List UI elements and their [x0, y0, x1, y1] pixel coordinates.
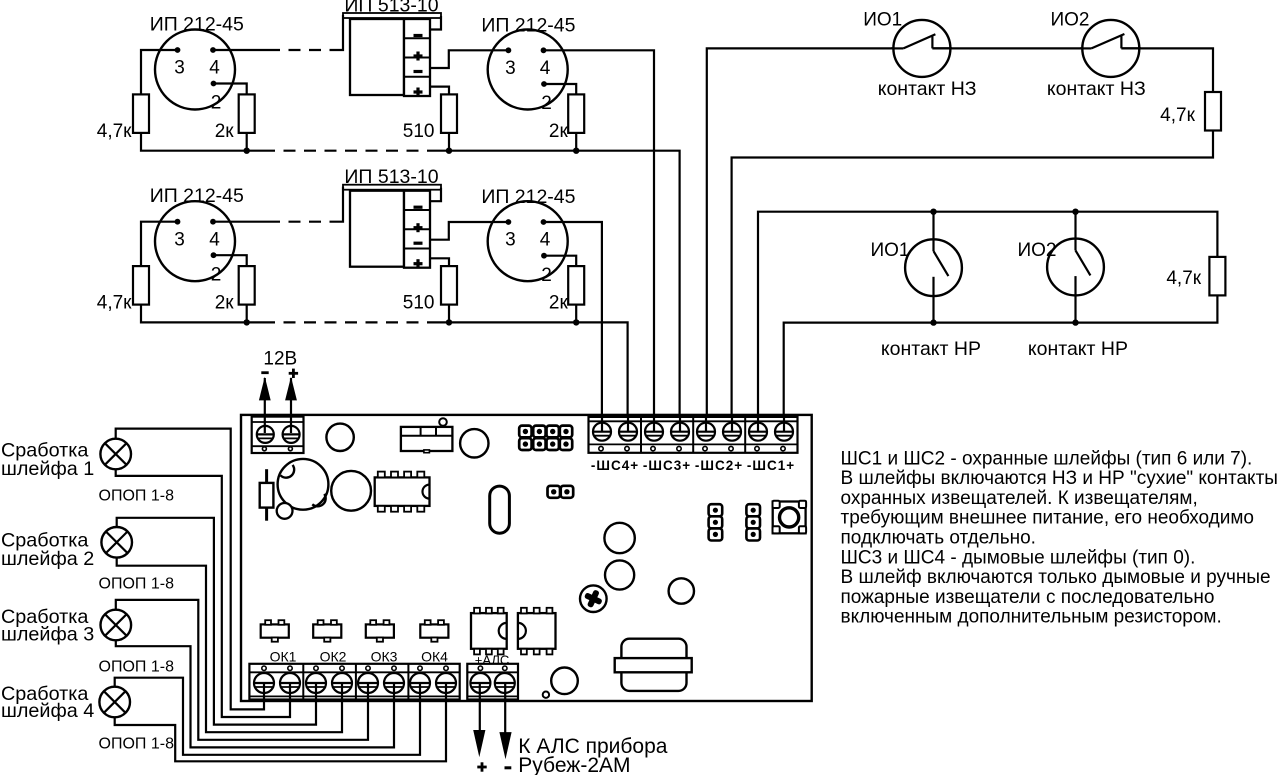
arrow +12В input: [285, 369, 298, 433]
label BK2 ИП 212-45: [481, 15, 575, 37]
svg-text:ОК2: ОК2: [320, 649, 347, 665]
label ОК3: [371, 649, 398, 665]
wire HL1 minus to ОК1: [116, 469, 290, 717]
resistor R5 4,7к: [1205, 92, 1221, 131]
mounting hole H1: [326, 424, 353, 451]
wire -ШС1 up, top bus to R10: [758, 212, 1217, 432]
svg-text:ИО1: ИО1: [863, 10, 902, 31]
svg-text:2к: 2к: [215, 121, 235, 142]
wire BK1 pin3 to R1: [141, 50, 178, 94]
electrolytic capacitor C2: [278, 459, 329, 510]
resistor R2 2к: [239, 94, 255, 132]
resistor R4 2к: [568, 94, 584, 132]
wire R8 bottom to bus: [448, 305, 450, 323]
arrow -12В input: [259, 371, 271, 433]
wire BU2 minus2 to BK4 pin3: [430, 222, 508, 240]
test point TP1: [439, 418, 447, 426]
svg-text:ИО2: ИО2: [1017, 240, 1056, 261]
label BK1 ИП 212-45: [150, 14, 244, 36]
svg-text:4: 4: [209, 229, 220, 250]
svg-text:4,7к: 4,7к: [1166, 268, 1201, 289]
wire BU1 minus1 terminal: [430, 16, 441, 30]
diode VD1: [260, 469, 274, 521]
label R7 2к: [215, 293, 235, 314]
security contact ИО1 normally open: [905, 212, 962, 323]
buzzer BA1: [615, 639, 692, 691]
wire BK3 pin3 to R6: [141, 222, 178, 266]
svg-text:2к: 2к: [549, 121, 569, 142]
label ОК2: [320, 649, 347, 665]
label контакт НР (ИО1): [881, 338, 981, 360]
arrow -АЛС out: [499, 683, 511, 759]
PCB board ОПОП outline: [241, 415, 812, 701]
label ОПОП 1-8 (2): [99, 576, 175, 593]
label R4 2к: [549, 121, 569, 142]
svg-text:шлейфа 1: шлейфа 1: [1, 458, 94, 480]
label -ШС2+: [695, 458, 743, 473]
transistor VT1: [261, 620, 289, 642]
svg-text:шлейфа 4: шлейфа 4: [1, 700, 94, 722]
indicator lamp HL4: [99, 687, 130, 718]
wire BK2 pin2 to R4: [544, 84, 577, 94]
svg-text:ОПОП 1-8: ОПОП 1-8: [99, 576, 175, 593]
label контакт НР (ИО2): [1028, 338, 1128, 360]
svg-text:ОПОП 1-8: ОПОП 1-8: [99, 487, 175, 504]
resistor R7 2к: [239, 266, 255, 305]
pin header XP3 1x3: [709, 504, 723, 540]
wire R7 bottom to bus: [246, 305, 248, 323]
svg-text:ОК3: ОК3: [371, 649, 398, 665]
svg-text:ШС3 и ШС4 - дымовые шлейфы (ти: ШС3 и ШС4 - дымовые шлейфы (тип 0).: [841, 547, 1196, 568]
label -ШС3+: [643, 458, 691, 473]
label -ШС1+: [747, 458, 795, 473]
label ИО1 (НР): [870, 240, 909, 261]
wire bottom bus +ШС1 to R10: [784, 295, 1218, 432]
svg-text:2к: 2к: [215, 293, 235, 314]
label +АЛС: [475, 653, 509, 668]
pin header XP4 1x3: [746, 504, 760, 540]
linear detector BU2 (ИП 513-10) with -+-+ terminals: [343, 185, 441, 269]
optocoupler U2 (DIP-6): [471, 608, 507, 655]
hole H3: [605, 560, 634, 589]
label ИО1 (НЗ): [863, 10, 902, 31]
annotation text block ШС1..ШС4 description: [841, 448, 1278, 627]
svg-text:ОПОП 1-8: ОПОП 1-8: [99, 658, 175, 675]
pin header XP1 2x4: [519, 426, 572, 450]
wire into BU1 minus1: [338, 15, 343, 50]
label BK4 ИП 212-45: [481, 186, 575, 208]
junction bottom bus / ИО2: [1072, 319, 1078, 325]
wire BU2 plus2 to R8: [430, 258, 449, 266]
svg-text:2: 2: [541, 265, 552, 286]
wire HL2 plus to ОК2: [117, 518, 316, 725]
svg-text:контакт НЗ: контакт НЗ: [1047, 78, 1146, 100]
smoke detector BK3 (ИП 212-45), pins 3 4 2: [155, 201, 235, 285]
arrow +АЛС out: [473, 683, 485, 757]
svg-text:шлейфа 2: шлейфа 2: [1, 548, 94, 570]
label 12В: [263, 349, 297, 370]
svg-text:ИП 212-45: ИП 212-45: [481, 186, 575, 208]
svg-text:3: 3: [174, 229, 185, 250]
label BK3 ИП 212-45: [150, 185, 244, 207]
linear detector BU1 (ИП 513-10) with -+-+ terminals: [343, 13, 441, 97]
wire BK3 pin4 dashed continuation: [268, 221, 338, 223]
label К АЛС прибора: [518, 735, 667, 758]
wire ИО1 to ИО2: [932, 47, 1091, 49]
wire BK1 pin4 right (solid): [213, 49, 268, 51]
label ИО2 (НР): [1017, 240, 1056, 261]
wire bus dashed segment row1: [263, 150, 437, 152]
wire BU1 plus2 to R3: [430, 87, 449, 95]
wire HL2 minus to ОК2: [117, 558, 342, 733]
svg-text:контакт НР: контакт НР: [881, 338, 981, 360]
label ОПОП 1-8 (4): [99, 735, 175, 752]
indicator lamp HL2: [101, 527, 132, 558]
hole H4: [669, 578, 694, 603]
transistor VT2: [313, 620, 341, 642]
svg-text:требующим внешнее питание, его: требующим внешнее питание, его необходим…: [841, 508, 1254, 529]
svg-text:4,7к: 4,7к: [97, 121, 132, 142]
capacitor C1 (round): [460, 429, 488, 457]
svg-text:ОК4: ОК4: [421, 649, 448, 665]
label R2 2к: [215, 121, 235, 142]
security contact ИО1 normally closed: [891, 20, 952, 77]
label ОПОП 1-8 (3): [99, 658, 175, 675]
wire BK2 pin4 to -ШС3: [544, 50, 655, 432]
wire BK3 pin2 to R7: [214, 255, 247, 266]
wire bus row2 to +ШС4: [437, 322, 628, 432]
svg-text:подключать отдельно.: подключать отдельно.: [841, 528, 1036, 549]
hole H5: [551, 668, 578, 695]
smoke detector BK1 (ИП 212-45), pins 3 4 2: [155, 30, 235, 114]
svg-text:охранных извещателей. К извеща: охранных извещателей. К извещателям,: [841, 488, 1198, 509]
svg-text:+АЛС: +АЛС: [475, 653, 509, 668]
wire R6 bottom to bus: [141, 305, 263, 323]
label ОК4: [421, 649, 448, 665]
label R10 4,7к: [1166, 268, 1201, 289]
label R1 4,7к: [97, 121, 132, 142]
terminal block АЛС: [467, 664, 518, 700]
label ОК1: [270, 649, 297, 665]
svg-text:4,7к: 4,7к: [1160, 105, 1195, 126]
label Сработка шлейфа 4: [1, 683, 94, 722]
wire ИО2 to R5: [1121, 48, 1213, 92]
wire R2 bottom to bus: [246, 133, 248, 151]
label - (АЛС): [505, 766, 512, 769]
resistor R3 510: [441, 94, 457, 132]
wire into BU2 minus1: [338, 187, 343, 222]
svg-text:3: 3: [505, 58, 516, 79]
junction R2/bus: [244, 148, 250, 154]
wire -ШС2 up and to ИО1: [707, 48, 904, 432]
label BU2 ИП 513-10: [344, 166, 438, 188]
capacitor C3 (small round): [277, 503, 293, 519]
terminal block ШС1..ШС4: [589, 417, 798, 453]
resistor R10 4,7к: [1209, 257, 1225, 296]
svg-text:В шлейф включаются только дымо: В шлейф включаются только дымовые и ручн…: [841, 567, 1271, 588]
wire R4 bottom to bus: [575, 133, 577, 151]
svg-text:включенным дополнительным рези: включенным дополнительным резистором.: [841, 607, 1222, 628]
label Сработка шлейфа 2: [1, 529, 94, 570]
junction bottom bus / ИО1: [930, 319, 936, 325]
wire R1 bottom to bus: [141, 133, 263, 151]
label + (АЛС): [477, 762, 486, 771]
tact switch SB1: [773, 501, 807, 534]
crystal/cap ZQ1 (capsule): [490, 486, 510, 533]
svg-text:12В: 12В: [263, 349, 297, 370]
svg-text:-ШС1+: -ШС1+: [747, 458, 795, 473]
svg-text:шлейфа 3: шлейфа 3: [1, 624, 94, 646]
terminal block 12В (0В +12В): [252, 417, 304, 453]
wire bus row1 to +ШС3: [437, 151, 680, 432]
smoke detector BK2 (ИП 212-45), pins 3 4 2: [488, 30, 568, 115]
label контакт НЗ (ИО1): [878, 78, 977, 100]
label -ШС4+: [591, 458, 639, 473]
wire R9 bottom to bus: [575, 305, 577, 323]
resistor R1 4,7к: [133, 94, 149, 132]
wire BK4 pin2 to R9: [544, 256, 577, 266]
svg-text:ШС1 и ШС2 - охранные шлейфы (т: ШС1 и ШС2 - охранные шлейфы (тип 6 или 7…: [841, 448, 1253, 469]
wire HL4 minus to ОК4: [115, 683, 446, 761]
jumper XP2 (2 pin): [548, 486, 574, 498]
svg-text:контакт НЗ: контакт НЗ: [878, 78, 977, 100]
resistor R9 2к: [568, 266, 584, 305]
capacitor C4 (round): [331, 471, 371, 511]
label R3 510: [403, 121, 435, 142]
svg-text:ИО1: ИО1: [870, 240, 909, 261]
hole H6 (small): [543, 692, 549, 698]
label Сработка шлейфа 3: [1, 606, 94, 646]
svg-text:2к: 2к: [549, 293, 569, 314]
optocoupler U3 (DIP-6): [518, 608, 556, 655]
label Сработка шлейфа 1: [1, 440, 94, 481]
label контакт НЗ (ИО2): [1047, 78, 1146, 100]
svg-text:ОПОП 1-8: ОПОП 1-8: [99, 735, 175, 752]
wire BK1 pin2 to R2: [214, 84, 247, 95]
label R6 4,7к: [97, 293, 132, 314]
component K1 (jumper block): [401, 427, 453, 453]
smoke detector BK4 (ИП 212-45), pins 3 4 2: [488, 201, 568, 286]
hole H2: [604, 523, 634, 553]
wire BK4 pin4 to -ШС4: [544, 222, 602, 432]
security contact ИО2 normally open: [1047, 212, 1104, 323]
svg-text:4: 4: [540, 230, 551, 251]
svg-text:2: 2: [211, 264, 222, 285]
label R8 510: [403, 293, 435, 314]
label BU1 ИП 513-10: [344, 0, 438, 17]
IC U1 (DIP-8): [375, 472, 430, 512]
junction top bus / ИО2: [1072, 209, 1078, 215]
svg-text:контакт НР: контакт НР: [1028, 338, 1128, 360]
wire stubs into ШС screws: [602, 417, 784, 432]
svg-text:4: 4: [540, 58, 551, 79]
wire HL3 minus to ОК3: [116, 640, 394, 747]
wire R5 to +ШС2: [732, 131, 1213, 433]
junction R4/bus: [573, 148, 579, 154]
resistor R6 4,7к: [133, 266, 149, 305]
junction R9/bus: [573, 319, 579, 325]
svg-text:4: 4: [209, 58, 220, 79]
wire bus dashed segment row2: [263, 321, 437, 323]
svg-text:4,7к: 4,7к: [97, 293, 132, 314]
label ИО2 (НЗ): [1050, 10, 1089, 31]
svg-text:ИП 212-45: ИП 212-45: [481, 15, 575, 37]
screw SCR1 (phillips): [580, 585, 607, 612]
label ОПОП 1-8 (1): [99, 487, 175, 504]
svg-text:510: 510: [403, 293, 435, 314]
svg-text:3: 3: [174, 58, 185, 79]
svg-text:ИП 212-45: ИП 212-45: [150, 14, 244, 36]
wire BK3 pin4 right (solid): [213, 221, 268, 223]
transistor VT3: [366, 620, 394, 642]
svg-text:-ШС4+: -ШС4+: [591, 458, 639, 473]
wire HL1 plus to ОК1: [116, 429, 264, 710]
wire BU2 minus1 terminal: [430, 188, 441, 202]
indicator lamp HL3: [101, 610, 132, 641]
svg-text:Рубеж-2АМ: Рубеж-2АМ: [518, 754, 630, 775]
label R9 2к: [549, 293, 569, 314]
transistor VT4: [420, 620, 448, 642]
svg-text:-ШС3+: -ШС3+: [643, 458, 691, 473]
terminal block ОК1..ОК4: [249, 664, 459, 700]
resistor R8 510: [441, 266, 457, 305]
svg-text:2: 2: [541, 93, 552, 114]
svg-text:-ШС2+: -ШС2+: [695, 458, 743, 473]
svg-text:ОК1: ОК1: [270, 649, 297, 665]
svg-text:ИП 212-45: ИП 212-45: [150, 185, 244, 207]
svg-text:3: 3: [505, 230, 516, 251]
indicator lamp HL1: [100, 439, 131, 470]
junction R8/bus: [446, 319, 452, 325]
security contact ИО2 normally closed: [1080, 20, 1141, 77]
junction R7/bus: [244, 319, 250, 325]
label R5 4,7к: [1160, 105, 1195, 126]
junction R3/bus: [446, 148, 452, 154]
wire BU1 minus2 to BK2 pin3: [430, 50, 508, 68]
label Рубеж-2АМ: [518, 754, 630, 777]
svg-text:510: 510: [403, 121, 435, 142]
svg-text:ИО2: ИО2: [1050, 10, 1089, 31]
svg-text:пожарные извещатели с последов: пожарные извещатели с последовательно: [841, 587, 1215, 608]
wire R3 bottom to bus: [448, 133, 450, 151]
svg-text:В шлейфы включаются НЗ и НР "с: В шлейфы включаются НЗ и НР "сухие" конт…: [841, 468, 1278, 489]
wire HL3 plus to ОК3: [116, 600, 368, 740]
wire HL4 plus to ОК4: [115, 678, 420, 755]
wire BK1 pin4 dashed continuation: [268, 49, 338, 51]
svg-text:2: 2: [211, 93, 222, 114]
junction top bus / ИО1: [930, 209, 936, 215]
